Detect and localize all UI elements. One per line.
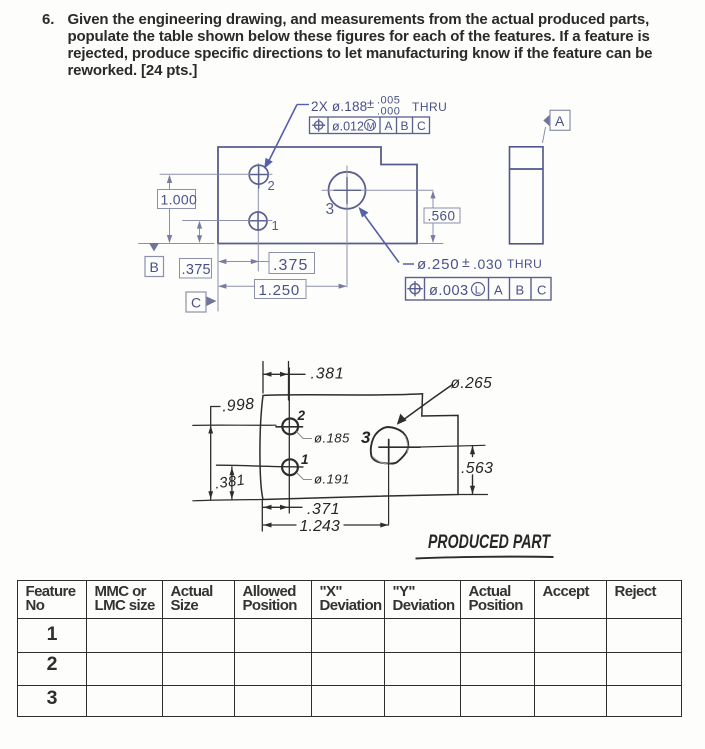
part outline (front view) <box>218 147 417 244</box>
produced part sketch <box>0 0 705 580</box>
svg-text:.563: .563 <box>461 460 493 477</box>
svg-text:ø.191: ø.191 <box>314 472 350 487</box>
hole 3 horizontal centerline <box>322 189 433 191</box>
svg-text:ø.185: ø.185 <box>314 431 350 446</box>
leader to holes 1,2 callout <box>267 105 298 166</box>
datum C symbol <box>186 292 206 312</box>
bottom edge extension line right <box>419 243 443 245</box>
holes 1-2 vertical centerline <box>257 164 259 272</box>
feature control frame 2 <box>406 278 552 301</box>
sketch hole 2 crosshair <box>276 426 303 428</box>
blob overdraw (light) <box>373 436 408 465</box>
sketch part outline <box>260 394 458 500</box>
hole 3 vertical centerline <box>346 166 348 287</box>
left edge extension line below part <box>217 244 219 312</box>
sketch holes vertical centerline <box>288 368 290 513</box>
small leaders to hole diameter texts <box>297 432 313 439</box>
bottom edge extension line left <box>139 243 215 245</box>
sketch bottom edge extension right <box>458 494 488 496</box>
sketch texts <box>214 366 552 554</box>
sketch hole 3 centerline ext right <box>420 445 485 447</box>
sketch hole 3 blob <box>371 427 409 464</box>
datum A symbol <box>543 127 546 143</box>
svg-text:.381: .381 <box>214 472 246 492</box>
dimension .375 vertical left <box>180 222 212 278</box>
hole crosshair marks <box>250 166 360 230</box>
hole 1 horizontal centerline <box>183 220 273 222</box>
1.243 arrows <box>264 523 272 528</box>
callout 2X .188 THRU dash <box>297 104 309 106</box>
position symbol <box>315 121 323 129</box>
produced part underline <box>416 557 554 559</box>
left dim .998 dimension line <box>211 407 220 500</box>
svg-text:2: 2 <box>297 408 306 423</box>
leader for hole 3 diameter <box>401 385 453 422</box>
top dim .381 dimension line <box>263 373 305 375</box>
dimension 1.250 <box>219 285 346 287</box>
top .381 arrows <box>264 372 272 377</box>
feature control frame 1 <box>310 117 430 134</box>
hole 1 circle <box>249 212 267 230</box>
right dim .563 dimension line <box>472 446 474 494</box>
sketch bottom edge extension left <box>193 500 262 501</box>
svg-text:ø.265: ø.265 <box>451 375 493 392</box>
svg-text:3: 3 <box>361 428 371 447</box>
dimension 1.000 <box>158 176 196 241</box>
.563 arrows <box>470 446 475 455</box>
sketch hole 1 circle <box>282 459 298 475</box>
svg-text:.381: .381 <box>311 366 345 383</box>
datum B symbol <box>149 243 159 252</box>
hole 2 circle <box>249 165 268 184</box>
dimension .375 horizontal <box>219 261 269 263</box>
svg-text:1.243: 1.243 <box>300 518 341 535</box>
hole 3 circle <box>329 172 366 209</box>
results table <box>17 580 682 717</box>
bottom .371 arrows <box>264 505 272 510</box>
side view <box>510 147 544 244</box>
svg-text:PRODUCED PART: PRODUCED PART <box>428 531 552 553</box>
position symbol <box>410 284 420 294</box>
hole 2 horizontal centerline <box>160 173 272 175</box>
.998 arrows <box>208 426 213 434</box>
svg-text:1: 1 <box>301 452 309 467</box>
left .381 arrows <box>230 467 235 475</box>
svg-text:.998: .998 <box>221 396 255 416</box>
left dim .381 dimension line <box>231 467 233 500</box>
sketch hole 1 centerline extension left <box>217 465 304 467</box>
top dim .381 extension lines <box>263 362 289 401</box>
bottom dim .371 dimension line <box>262 500 302 532</box>
sketch hole 3 crosshair <box>379 440 420 462</box>
bottom dim 1.243 dimension line <box>263 524 389 526</box>
problem statement text <box>42 12 687 80</box>
sketch hole 2 circle <box>282 419 298 435</box>
sketch hole 2 centerline extension left <box>193 424 276 426</box>
dimension .560 <box>432 192 434 243</box>
sketch hole 3 vertical centerline down <box>388 462 390 524</box>
svg-text:.371: .371 <box>307 501 340 518</box>
leader to hole 3 callout <box>361 211 399 263</box>
hole3 leader arrowhead <box>397 414 407 425</box>
callout .250 THRU <box>403 263 414 265</box>
